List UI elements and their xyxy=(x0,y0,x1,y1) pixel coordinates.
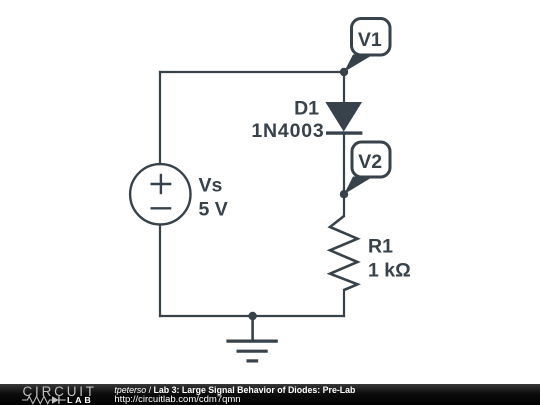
CircuitLab logo wordmark CIRCUIT xyxy=(23,385,97,399)
svg-text:1 kΩ: 1 kΩ xyxy=(368,260,411,282)
wire left vertical upper segment xyxy=(159,72,161,164)
ground bar 3 xyxy=(247,359,259,362)
node dot ground junction xyxy=(248,312,256,320)
ground bar 2 xyxy=(237,350,268,353)
node dot top (V1 net) xyxy=(340,68,348,76)
node dot middle (V2 net) xyxy=(340,190,348,198)
svg-text:5 V: 5 V xyxy=(199,199,228,221)
svg-text:R1: R1 xyxy=(368,235,393,257)
diode D1 cathode bar xyxy=(326,131,362,134)
wire bottom horizontal xyxy=(160,315,344,317)
logo text LAB xyxy=(67,397,93,405)
probe flag V2 pointer xyxy=(344,177,373,195)
svg-text:V1: V1 xyxy=(358,29,382,51)
svg-text:V2: V2 xyxy=(358,151,382,173)
CircuitLab logo schematic squiggle xyxy=(22,395,92,405)
wire top horizontal from left corner to node V1 xyxy=(160,71,344,73)
svg-text:Vs: Vs xyxy=(199,174,223,196)
ground bar 1 xyxy=(226,340,277,343)
logo diode triangle xyxy=(52,396,59,404)
resistor R1 zigzag xyxy=(330,216,358,290)
wire resistor bottom lead xyxy=(343,290,345,316)
logo diode bar xyxy=(58,396,60,404)
wire right top: node to diode anode xyxy=(343,72,345,103)
footer title line xyxy=(114,386,355,395)
voltage source Vs xyxy=(130,164,190,224)
diode D1 triangle (anode) xyxy=(327,103,361,131)
logo wire and resistor zigzag xyxy=(22,397,52,404)
probe flag V1 box xyxy=(352,19,391,56)
wire diode cathode down to resistor xyxy=(343,133,345,216)
svg-text:1N4003: 1N4003 xyxy=(251,120,324,142)
probe flag V1 pointer xyxy=(344,55,373,73)
footer url line xyxy=(114,395,240,405)
footer bar xyxy=(0,384,540,405)
ground stem xyxy=(251,316,254,340)
wire left vertical lower segment xyxy=(159,225,161,316)
svg-text:D1: D1 xyxy=(294,97,319,119)
probe flag V2 box xyxy=(352,142,390,177)
logo wire after diode xyxy=(59,399,66,401)
